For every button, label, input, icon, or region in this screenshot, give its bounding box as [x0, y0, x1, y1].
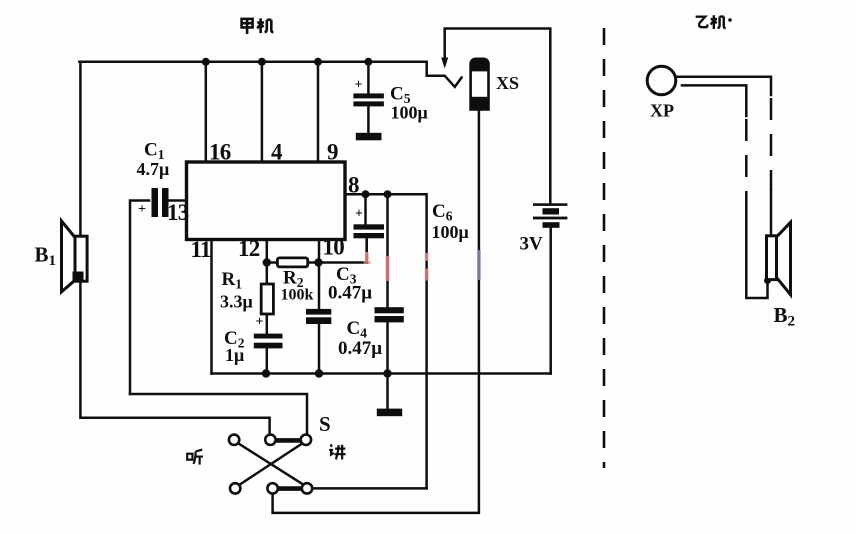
- svg-text:XP: XP: [650, 101, 674, 121]
- svg-text:+: +: [355, 78, 363, 93]
- svg-text:+: +: [138, 202, 146, 217]
- svg-text:3.3μ: 3.3μ: [220, 292, 253, 312]
- svg-text:0.47μ: 0.47μ: [328, 283, 372, 304]
- svg-text:12: 12: [238, 236, 260, 261]
- svg-text:4.7μ: 4.7μ: [137, 159, 170, 179]
- svg-text:13: 13: [167, 200, 189, 225]
- svg-text:XS: XS: [496, 73, 519, 93]
- svg-text:0.47μ: 0.47μ: [338, 338, 382, 359]
- svg-text:8: 8: [348, 173, 359, 198]
- svg-text:11: 11: [191, 237, 211, 262]
- svg-text:3V: 3V: [520, 234, 544, 255]
- svg-text:S: S: [319, 412, 331, 436]
- svg-text:+: +: [256, 315, 264, 330]
- svg-text:4: 4: [271, 140, 283, 165]
- svg-text:100μ: 100μ: [391, 103, 428, 123]
- svg-text:+: +: [355, 207, 363, 222]
- svg-text:1μ: 1μ: [225, 345, 244, 365]
- svg-text:100k: 100k: [281, 287, 314, 304]
- svg-text:100μ: 100μ: [432, 222, 469, 242]
- svg-text:9: 9: [327, 140, 338, 165]
- svg-text:16: 16: [209, 140, 231, 165]
- svg-text:10: 10: [323, 235, 345, 260]
